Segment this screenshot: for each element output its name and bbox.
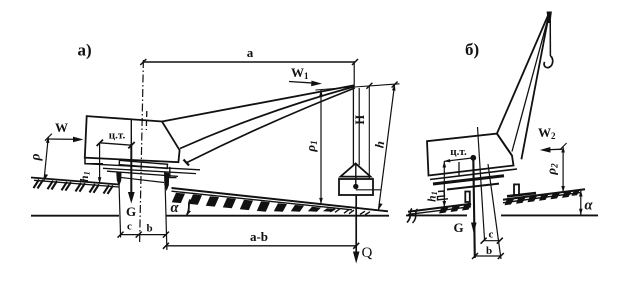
h1 dimension line (b) — [443, 161, 445, 207]
ground slope line under crane (a) — [31, 178, 119, 185]
right deck step (a) — [170, 167, 177, 178]
hoist rope double line — [352, 87, 354, 165]
ground slope line (b) upper left segment — [408, 204, 471, 212]
svg-text:Q: Q — [362, 245, 373, 261]
slope wedge second line (a) — [172, 191, 353, 210]
rope end inside block — [355, 165, 357, 187]
boom (b) right edge — [521, 13, 549, 160]
deck line (b) — [430, 169, 517, 180]
cluster left extension line (a) — [119, 179, 121, 238]
rho2 dimension line (b) — [562, 147, 564, 192]
boom (b) left edge — [497, 13, 549, 134]
svg-text:c: c — [489, 229, 494, 241]
turntable bar (b) — [433, 176, 504, 184]
h1 dimension line (a) — [99, 144, 101, 183]
horizontal ground line left segment (a) — [31, 215, 119, 217]
ground slope line (b) upper right segment — [503, 189, 585, 199]
bench under right wheel (b) — [507, 193, 536, 196]
a dimension line — [143, 61, 355, 63]
rho1 extension from tip — [316, 87, 355, 90]
svg-text:b: b — [146, 223, 152, 235]
wheel left (b) — [465, 192, 470, 203]
svg-text:h1: h1 — [427, 191, 440, 202]
c-b dimension line (a) — [121, 234, 166, 236]
left bracket (b) — [438, 191, 449, 200]
left wheel leg (a) — [116, 171, 121, 186]
pedestal edge (b) — [458, 162, 460, 176]
ground slope line (b) lower left segment — [408, 207, 471, 215]
boom bottom chord 1 (a) — [180, 87, 355, 149]
crane body (a) — [85, 116, 180, 162]
alpha angle arrow (a) — [187, 200, 191, 215]
third vertical line from tip extension — [368, 86, 370, 179]
hook line (b) — [549, 14, 551, 56]
tick at rho2 top (b) — [560, 143, 567, 150]
vertical line through c.t. / G force (a) — [130, 119, 132, 144]
c.t. leader line (a) — [100, 143, 132, 145]
boom (b) inner line — [512, 14, 549, 152]
body left bottom step (a) — [85, 158, 103, 164]
h extension from tip — [354, 84, 400, 87]
ground hatch (b) — [439, 191, 580, 214]
lower bar (b) — [447, 184, 499, 190]
ground slope line (b) lower right segment — [503, 193, 580, 203]
boom foot knot (a) — [184, 160, 190, 166]
tick left end (a c.t.) — [97, 140, 103, 146]
ground horizontal line (b) right segment — [501, 214, 598, 216]
tick on tip extension at third line — [366, 83, 372, 89]
svg-text:h1: h1 — [79, 171, 92, 182]
svg-text:b: b — [486, 245, 492, 257]
Q force line and arrow — [355, 195, 357, 259]
track bottom line (a) — [121, 178, 164, 183]
dot extension line — [356, 189, 382, 191]
deck line (a) — [85, 164, 200, 170]
svg-text:G: G — [453, 220, 463, 235]
ground horizontal line (b) left segment — [406, 214, 467, 216]
crane body (b) — [427, 134, 514, 176]
tick right end (a c.t.) — [128, 142, 134, 148]
svg-text:H: H — [353, 115, 367, 125]
svg-text:ц.т.: ц.т. — [450, 146, 467, 158]
boom apex cap — [547, 12, 552, 24]
svg-text:б): б) — [465, 40, 479, 59]
wedge thin hatch right part (a) — [330, 208, 370, 215]
axis double dash artifact (a) — [145, 111, 148, 130]
slope wedge hatch (a) — [172, 193, 336, 212]
b dimension (b) — [475, 255, 501, 257]
horizontal ground line right segment (a) — [166, 215, 389, 217]
cab front (b) — [497, 134, 512, 156]
svg-text:а): а) — [78, 41, 92, 60]
a-b dimension line (a) — [166, 245, 356, 247]
load c.g. dot — [353, 184, 358, 189]
track frame line (a) — [107, 171, 178, 176]
svg-text:c: c — [127, 221, 132, 233]
right wheel leg (a) — [164, 172, 169, 191]
load box — [339, 179, 373, 195]
oblique ticks c-b (a) — [118, 232, 169, 238]
extension tip to a-line — [353, 62, 355, 87]
svg-text:a-b: a-b — [250, 229, 268, 244]
boom bottom chord 2 (a) — [187, 88, 355, 163]
svg-text:W: W — [55, 120, 68, 135]
rho dimension line (a) — [44, 137, 48, 181]
turntable frame (a) — [119, 160, 167, 168]
alpha arrow (b) — [580, 191, 582, 215]
deck lower line (a) — [103, 168, 196, 173]
axis slanted line 1 (b) — [478, 127, 485, 241]
c.t. leader (b) — [444, 158, 473, 161]
axis slanted line 2 (b) — [488, 164, 501, 259]
ground hatch under crane (a) — [34, 180, 114, 194]
G force line (b) — [473, 158, 475, 258]
svg-text:a: a — [247, 45, 254, 60]
svg-text:α: α — [171, 200, 180, 216]
hook curl (b) — [544, 56, 553, 68]
tick at rho top (a) — [45, 134, 52, 141]
boom top chord (a) — [162, 85, 355, 121]
hook block trapezoid — [341, 164, 371, 177]
h dimension line (slanted) — [379, 85, 395, 210]
svg-text:ρ: ρ — [28, 153, 43, 161]
svg-text:G: G — [126, 204, 136, 219]
wheel right (b) — [514, 184, 519, 195]
rotation axis dash-dot (a) — [140, 60, 144, 243]
rho1 dimension line — [320, 90, 322, 204]
svg-text:ц.т.: ц.т. — [109, 129, 126, 141]
cluster right extension line / tipping edge (a) — [165, 172, 167, 250]
c dimension (b) — [484, 240, 500, 242]
slope wedge upper line (a) — [172, 188, 389, 211]
svg-text:α: α — [585, 198, 594, 214]
wavy break (b) — [407, 209, 412, 223]
c.t. dot (b) — [470, 155, 476, 161]
ground slope second line (a) — [34, 180, 119, 187]
